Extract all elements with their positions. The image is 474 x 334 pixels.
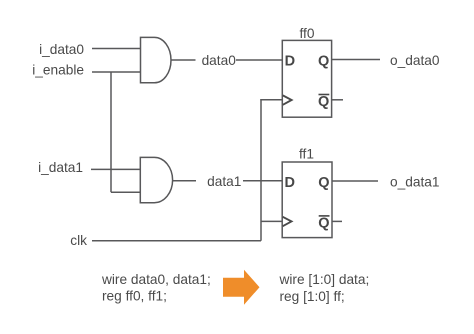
svg-text:ff1: ff1	[299, 147, 314, 162]
svg-text:data1: data1	[207, 174, 241, 189]
flip-flop ff0 body	[282, 40, 331, 117]
wire i_enable	[92, 71, 141, 73]
wire i_data1	[91, 168, 140, 170]
svg-text:o_data0: o_data0	[390, 53, 440, 68]
svg-text:D: D	[285, 54, 295, 70]
wire enable branch horizontal	[111, 191, 140, 193]
svg-text:Q: Q	[318, 175, 329, 191]
wire ff0 Qbar stub	[332, 99, 343, 101]
wire data1	[173, 180, 283, 182]
ff0 pin Qbar	[318, 94, 329, 110]
ff1 clock chevron	[283, 217, 292, 226]
svg-text:i_enable: i_enable	[32, 63, 84, 78]
arrow	[223, 270, 260, 305]
svg-text:wire data0, data1;: wire data0, data1;	[101, 272, 211, 287]
svg-text:Q: Q	[318, 94, 329, 110]
svg-text:o_data1: o_data1	[390, 175, 439, 190]
wire enable branch vertical	[110, 72, 112, 192]
wire data0	[171, 59, 282, 61]
svg-text:data0: data0	[202, 53, 237, 68]
svg-text:Q: Q	[318, 54, 329, 70]
wire o_data0	[332, 59, 380, 61]
wire o_data1	[332, 180, 378, 182]
svg-text:i_data0: i_data0	[39, 42, 84, 57]
wire i_data0	[92, 48, 141, 50]
wire clk to ff1	[261, 220, 282, 222]
wire clk	[92, 240, 261, 242]
ff1 pin Qbar	[318, 215, 329, 231]
svg-text:reg ff0, ff1;: reg ff0, ff1;	[102, 289, 167, 304]
svg-text:wire [1:0] data;: wire [1:0] data;	[279, 272, 370, 287]
svg-text:Q: Q	[318, 215, 329, 231]
wire clk to ff0	[260, 99, 282, 101]
svg-text:D: D	[285, 175, 295, 191]
wire clk bus vertical	[260, 99, 262, 241]
AND gate G1	[141, 37, 171, 82]
wire ff1 Qbar stub	[332, 220, 342, 222]
svg-text:i_data1: i_data1	[38, 160, 83, 175]
ff0 clock chevron	[283, 95, 292, 104]
flip-flop ff1 body	[282, 162, 332, 238]
node data1	[196, 173, 243, 189]
svg-text:clk: clk	[70, 233, 87, 248]
svg-text:reg [1:0] ff;: reg [1:0] ff;	[280, 289, 345, 304]
svg-text:ff0: ff0	[300, 26, 315, 41]
AND gate G2	[140, 157, 172, 202]
node data0	[196, 52, 237, 68]
